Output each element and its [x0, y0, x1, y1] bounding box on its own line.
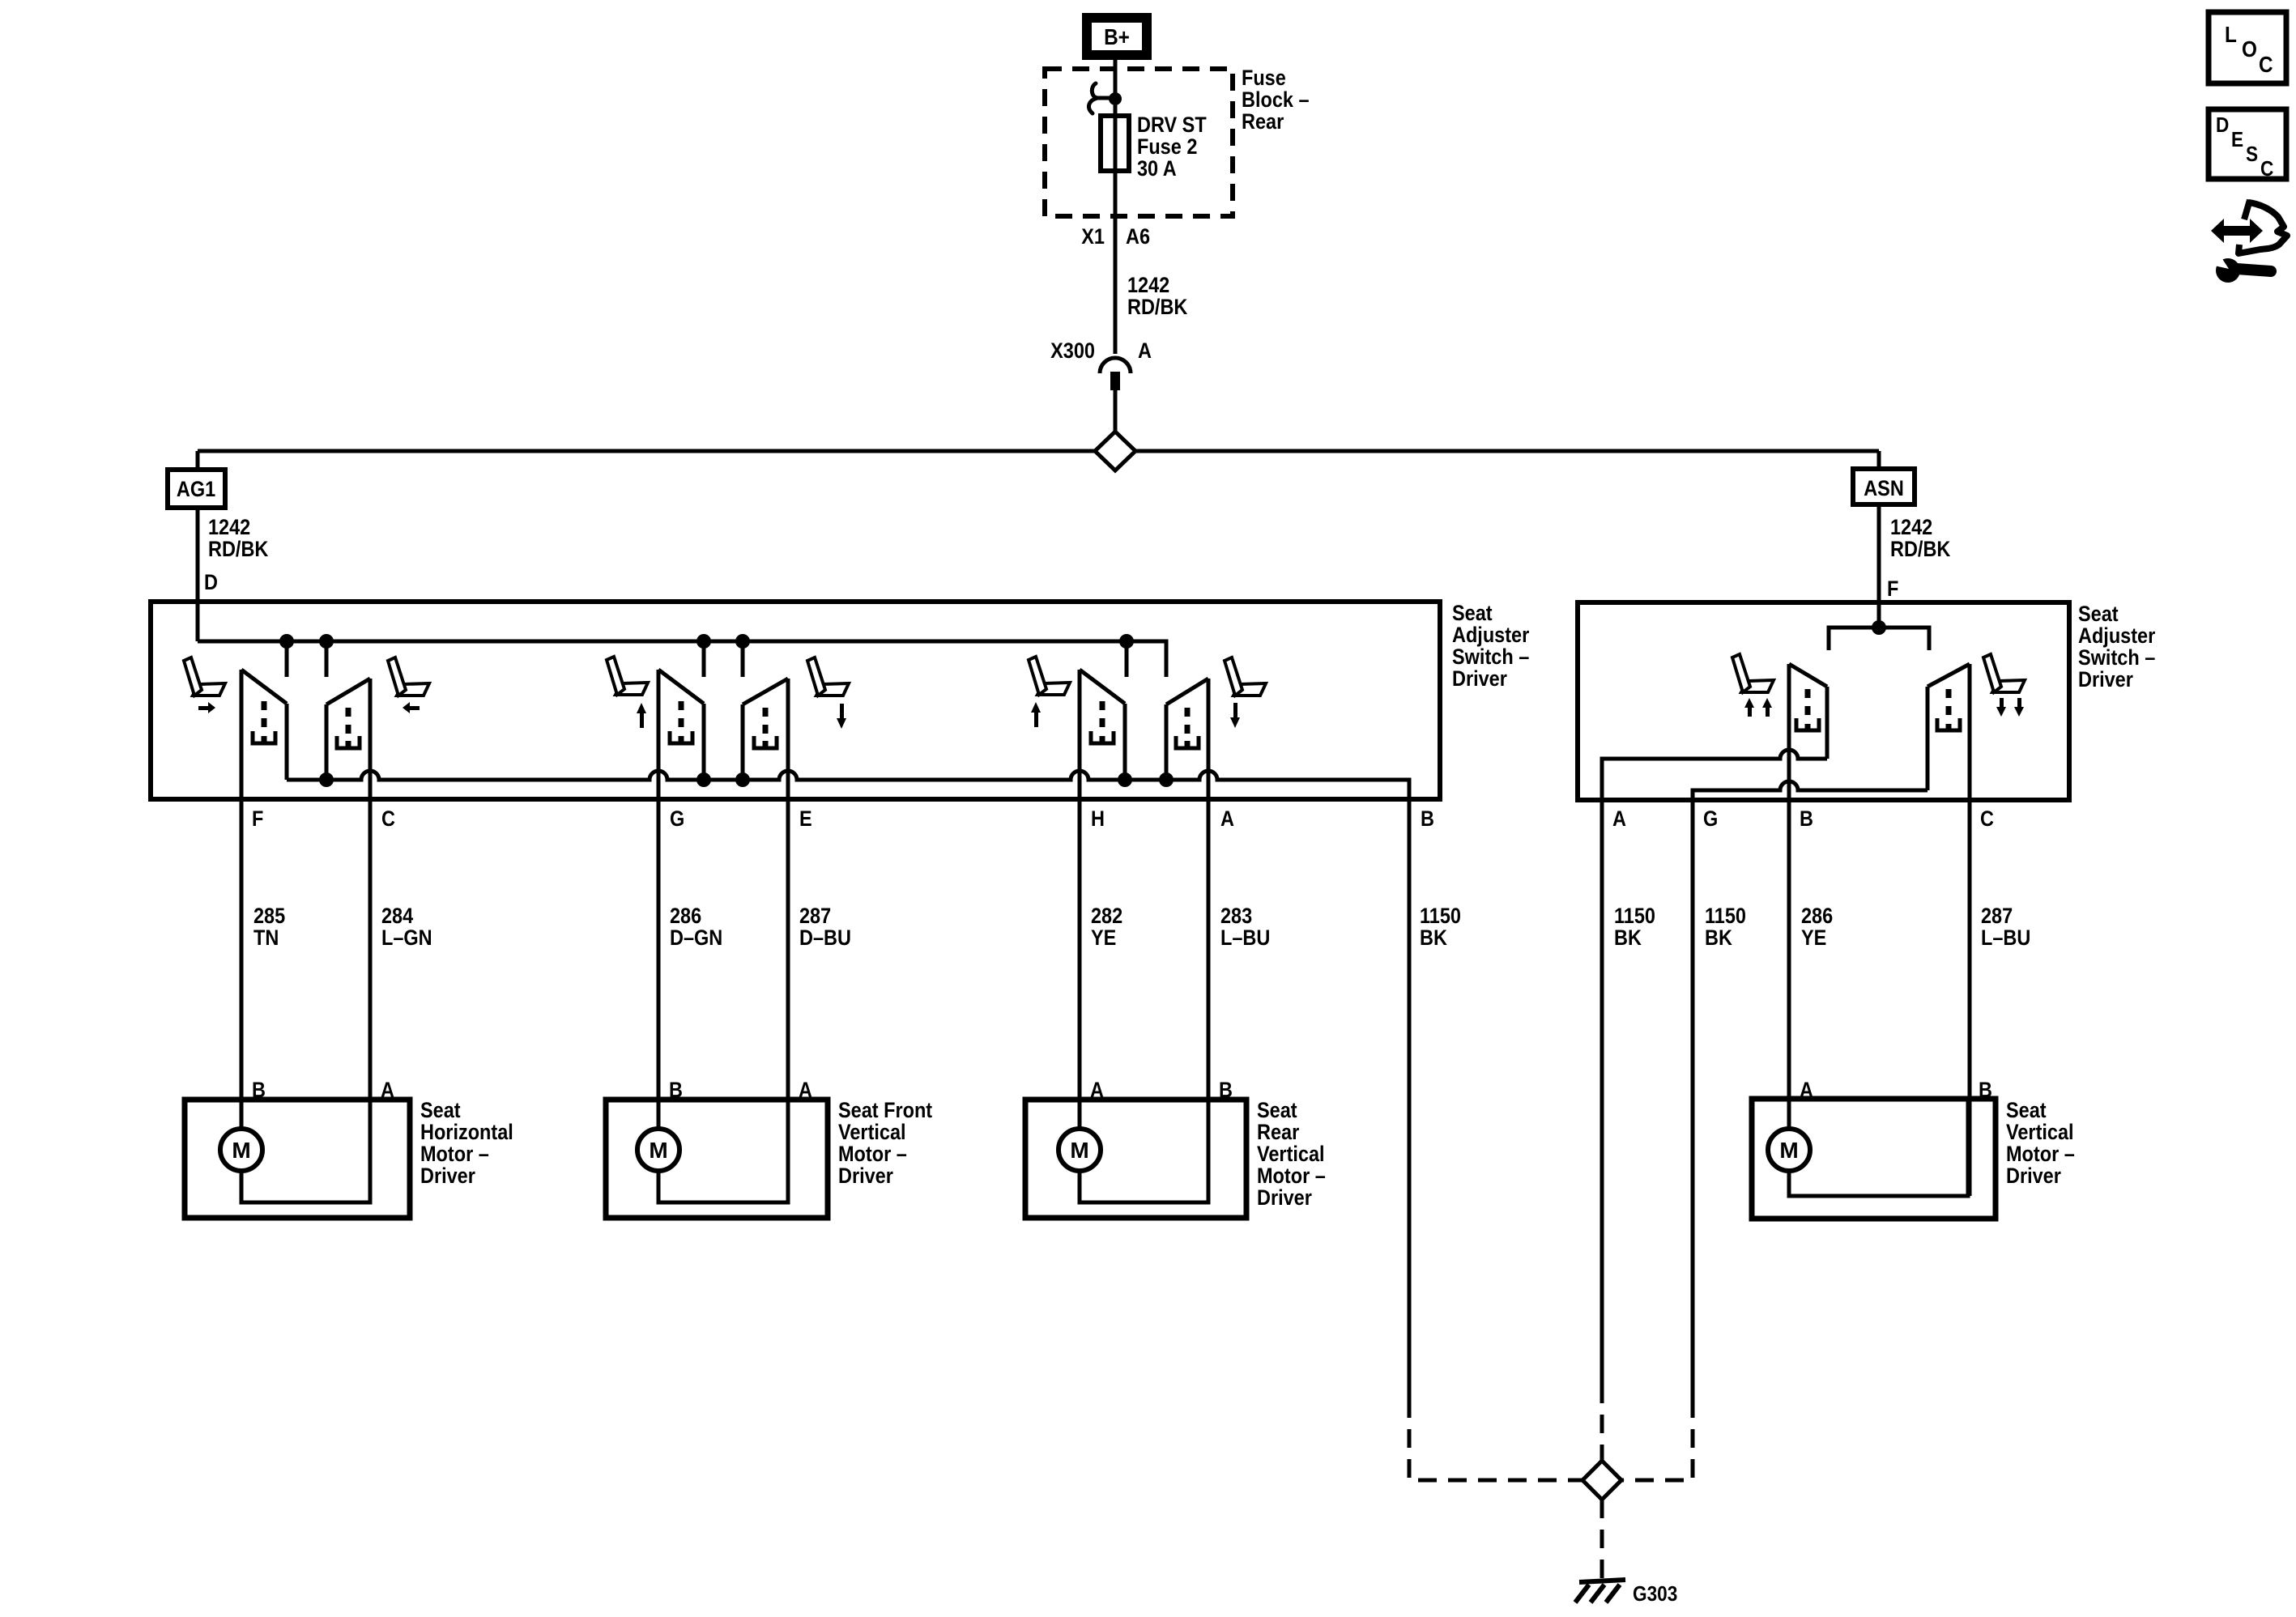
- switch contact rear down (A): [1166, 679, 1208, 780]
- ground splice diamond: [1582, 1461, 1621, 1500]
- svg-text:X300: X300: [1050, 339, 1095, 364]
- svg-text:Seat: Seat: [1452, 602, 1493, 626]
- svg-text:286: 286: [670, 904, 701, 929]
- svg-text:M: M: [232, 1138, 250, 1163]
- svg-text:C: C: [381, 807, 395, 832]
- svg-text:Vertical: Vertical: [1257, 1143, 1325, 1167]
- svg-text:1242: 1242: [208, 516, 250, 540]
- fuse DRV ST Fuse 2 30A: [1101, 116, 1129, 171]
- wire E to motor 287 D-BU: [786, 679, 790, 1202]
- svg-text:L: L: [2225, 21, 2237, 47]
- svg-text:L–BU: L–BU: [1981, 926, 2030, 951]
- svg-text:TN: TN: [253, 926, 279, 951]
- svg-text:285: 285: [253, 904, 285, 929]
- svg-text:30 A: 30 A: [1137, 157, 1177, 181]
- svg-text:B: B: [1979, 1079, 1992, 1103]
- svg-text:C: C: [2260, 158, 2273, 181]
- svg-text:Vertical: Vertical: [2006, 1121, 2074, 1145]
- feed stubs: [285, 641, 289, 677]
- svg-text:Seat: Seat: [2078, 602, 2119, 627]
- svg-text:Motor –: Motor –: [1257, 1164, 1326, 1189]
- wire ASN to switch pin F: [1877, 504, 1881, 628]
- svg-text:M: M: [1779, 1138, 1798, 1163]
- motor seat horizontal internal loop wire: [241, 1100, 370, 1202]
- svg-text:B: B: [1800, 807, 1813, 832]
- seat icon rear down: [1225, 657, 1266, 696]
- wire G to motor 286 D-GN: [657, 670, 661, 1129]
- svg-text:C: C: [2259, 51, 2273, 77]
- switch contact seat down (C side): [1928, 664, 1970, 790]
- svg-text:BK: BK: [1420, 926, 1448, 951]
- svg-text:B: B: [252, 1079, 266, 1103]
- svg-text:YE: YE: [1091, 926, 1116, 951]
- svg-text:M: M: [649, 1138, 667, 1163]
- svg-text:Motor –: Motor –: [420, 1143, 489, 1167]
- svg-text:D–GN: D–GN: [670, 926, 722, 951]
- svg-text:AG1: AG1: [177, 478, 215, 502]
- svg-text:B: B: [669, 1079, 683, 1103]
- wire B ground 1150 BK: [1408, 799, 1412, 1399]
- svg-text:M: M: [1070, 1138, 1088, 1163]
- common return bus with hops: [287, 771, 1409, 799]
- seat icon vertical down: [1983, 654, 2025, 692]
- svg-text:Rear: Rear: [1242, 110, 1284, 134]
- svg-text:O: O: [2242, 36, 2257, 62]
- svg-text:Driver: Driver: [2006, 1164, 2061, 1189]
- main bus wire right: [1135, 449, 1879, 453]
- svg-text:YE: YE: [1801, 926, 1826, 951]
- arrow down front down: [837, 704, 846, 729]
- staple junction dot: [1872, 620, 1886, 635]
- svg-text:Seat: Seat: [420, 1099, 461, 1123]
- svg-text:Driver: Driver: [420, 1164, 475, 1189]
- svg-text:A: A: [799, 1079, 812, 1103]
- svg-text:A: A: [1138, 339, 1152, 364]
- svg-text:287: 287: [1981, 904, 2013, 929]
- svg-text:A: A: [1090, 1079, 1104, 1103]
- repair icon connector outline: [2238, 200, 2287, 253]
- svg-text:Switch –: Switch –: [1452, 645, 1529, 670]
- wire X300 to splice: [1114, 390, 1118, 432]
- splice diamond node: [1095, 432, 1135, 470]
- svg-text:Fuse: Fuse: [1242, 66, 1286, 91]
- svg-text:X1: X1: [1081, 225, 1105, 249]
- seat icon rear up: [1029, 657, 1070, 695]
- motor seat front vertical M circle: [637, 1129, 679, 1171]
- svg-text:H: H: [1091, 807, 1105, 832]
- svg-text:L–GN: L–GN: [381, 926, 432, 951]
- switch contact seat rearward (C): [326, 679, 370, 780]
- svg-text:Driver: Driver: [1257, 1186, 1312, 1211]
- svg-text:E: E: [799, 807, 812, 832]
- motor seat rear vertical internal loop wire: [1080, 1100, 1208, 1202]
- svg-text:286: 286: [1801, 904, 1833, 929]
- svg-text:BK: BK: [1705, 926, 1733, 951]
- arrow down v3: [1996, 698, 2006, 717]
- dashed ground wires to splice: [1600, 1385, 1604, 1461]
- svg-text:A: A: [1800, 1079, 1813, 1103]
- seat adjuster switch driver box (right): [1578, 602, 2069, 800]
- svg-text:Driver: Driver: [2078, 668, 2133, 692]
- seat icon horizontal fwd: [184, 657, 225, 696]
- motor box seat front vertical: [606, 1100, 828, 1218]
- arrow up v2: [1762, 698, 1772, 717]
- ground symbol G303: [1575, 1580, 1625, 1602]
- motor seat rear vertical M circle: [1059, 1129, 1101, 1171]
- jog wire pin G with hop: [1693, 781, 1928, 1399]
- feed bus junction dots: [279, 634, 294, 649]
- seat adjuster switch driver box (left): [151, 602, 1440, 799]
- wire C to motor 284 L-GN: [368, 679, 373, 1202]
- svg-text:Adjuster: Adjuster: [1452, 623, 1529, 648]
- motor seat front vertical internal loop wire: [658, 1100, 788, 1202]
- svg-text:G: G: [670, 807, 684, 832]
- motor seat vertical M circle: [1768, 1129, 1810, 1171]
- switch contact seat forward (F): [241, 670, 287, 780]
- svg-text:1150: 1150: [1420, 904, 1461, 929]
- svg-text:BK: BK: [1614, 926, 1642, 951]
- svg-text:1242: 1242: [1890, 516, 1932, 540]
- svg-text:G303: G303: [1633, 1583, 1677, 1606]
- motor box seat horizontal: [185, 1100, 410, 1218]
- repair icon double arrow: [2211, 219, 2263, 243]
- svg-text:Seat: Seat: [1257, 1099, 1297, 1123]
- svg-text:D–BU: D–BU: [799, 926, 851, 951]
- svg-text:F: F: [252, 807, 263, 832]
- connector ASN: [1853, 469, 1915, 504]
- seat icon front down: [807, 657, 849, 696]
- svg-text:RD/BK: RD/BK: [1127, 296, 1188, 320]
- svg-text:Horizontal: Horizontal: [420, 1121, 513, 1145]
- svg-text:D: D: [204, 571, 218, 595]
- arrow left rwd: [403, 702, 420, 713]
- svg-text:Switch –: Switch –: [2078, 646, 2155, 670]
- wire bus to ASN: [1877, 451, 1881, 469]
- connector AG1: [168, 470, 225, 508]
- svg-text:F: F: [1887, 577, 1898, 602]
- repair icon wrench: [2214, 255, 2271, 283]
- svg-text:1242: 1242: [1127, 274, 1169, 298]
- motor box seat rear vertical: [1025, 1100, 1246, 1218]
- wire F to motor 285 TN: [240, 670, 244, 1129]
- jog wire pin A with hop: [1602, 750, 1827, 1385]
- seat icon horizontal rwd: [388, 657, 429, 696]
- fuse block dashed box: [1045, 69, 1233, 216]
- svg-text:S: S: [2246, 143, 2258, 167]
- motor seat horizontal M circle: [220, 1129, 262, 1171]
- svg-text:287: 287: [799, 904, 831, 929]
- svg-text:1150: 1150: [1614, 904, 1655, 929]
- wire C to motor: [1968, 664, 1972, 1196]
- svg-text:B: B: [1421, 807, 1434, 832]
- svg-text:Block –: Block –: [1242, 88, 1310, 113]
- svg-text:Adjuster: Adjuster: [2078, 624, 2155, 649]
- svg-text:A: A: [1612, 807, 1626, 832]
- svg-text:E: E: [2231, 129, 2243, 152]
- switch contact rear up (H): [1080, 670, 1125, 780]
- svg-text:A: A: [381, 1079, 394, 1103]
- arrow up v1: [1744, 698, 1754, 717]
- main bus wire left: [198, 449, 1095, 453]
- svg-text:RD/BK: RD/BK: [208, 538, 269, 562]
- DESC legend box: [2209, 109, 2286, 179]
- svg-text:283: 283: [1220, 904, 1252, 929]
- svg-text:B+: B+: [1104, 23, 1130, 49]
- motor box seat vertical: [1752, 1099, 1996, 1219]
- svg-text:Motor –: Motor –: [838, 1143, 907, 1167]
- svg-text:Driver: Driver: [1452, 667, 1507, 691]
- seat icon front up: [607, 657, 648, 695]
- arrow up front up: [637, 703, 646, 728]
- svg-text:DRV ST: DRV ST: [1137, 113, 1207, 138]
- svg-text:RD/BK: RD/BK: [1890, 538, 1951, 562]
- dashed wire to ground: [1600, 1500, 1604, 1581]
- arrow up rear up: [1031, 702, 1041, 727]
- svg-text:Rear: Rear: [1257, 1121, 1299, 1145]
- svg-text:B: B: [1219, 1079, 1233, 1103]
- svg-text:284: 284: [381, 904, 413, 929]
- wire B to motor: [1787, 664, 1791, 1129]
- LOC legend box: [2209, 12, 2286, 83]
- svg-text:Driver: Driver: [838, 1164, 893, 1189]
- svg-text:Seat: Seat: [2006, 1099, 2047, 1123]
- arrow down v4: [2014, 698, 2024, 717]
- switch contact front up (G): [658, 670, 704, 780]
- wire A to motor 283 L-BU: [1207, 679, 1211, 1202]
- svg-text:G: G: [1703, 807, 1718, 832]
- wire bus to AG1: [196, 451, 200, 470]
- svg-text:A6: A6: [1126, 225, 1150, 249]
- svg-text:ASN: ASN: [1864, 477, 1904, 501]
- motor seat vertical internal loop wire: [1789, 1099, 1968, 1196]
- junction dot at fuse top: [1109, 92, 1122, 105]
- feed staple: [1829, 628, 1929, 650]
- svg-text:L–BU: L–BU: [1220, 926, 1270, 951]
- arrow down rear down: [1230, 703, 1240, 728]
- arrow right fwd: [198, 702, 215, 713]
- fuse pull curl: [1088, 83, 1113, 113]
- svg-text:Fuse 2: Fuse 2: [1137, 135, 1197, 160]
- seat icon vertical up: [1732, 654, 1774, 692]
- internal feed bus: [198, 641, 1166, 677]
- svg-text:D: D: [2216, 114, 2229, 138]
- svg-text:C: C: [1980, 807, 1994, 832]
- switch contact front down (E): [743, 679, 788, 780]
- svg-text:Motor –: Motor –: [2006, 1143, 2075, 1167]
- svg-text:A: A: [1220, 807, 1234, 832]
- B+ battery terminal box: [1087, 18, 1147, 55]
- wire AG1 to switch pin D: [196, 508, 200, 641]
- return bus junction dots: [319, 772, 334, 787]
- svg-text:Vertical: Vertical: [838, 1121, 906, 1145]
- svg-text:Seat Front: Seat Front: [838, 1099, 933, 1123]
- wire B+ to fuse: [1114, 60, 1118, 354]
- svg-text:282: 282: [1091, 904, 1122, 929]
- wire H to motor 282 YE: [1078, 670, 1082, 1129]
- switch contact seat up (B side): [1789, 664, 1827, 759]
- svg-text:1150: 1150: [1705, 904, 1746, 929]
